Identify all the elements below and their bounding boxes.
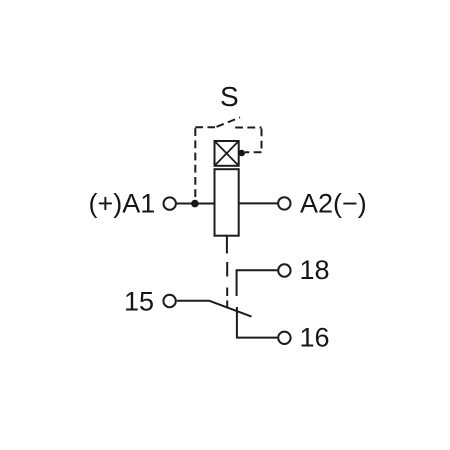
terminal circle 15 [163,295,175,307]
svg-text:15: 15 [124,286,154,316]
svg-text:16: 16 [300,323,330,353]
junction dot at coil right terminal [238,150,245,157]
dashed control wire: left edge from switch S down to A1 node [194,127,196,200]
contact lever (common pole from 15) [209,301,251,317]
wire terminal 15 to lever pivot [177,300,210,302]
terminal circle 18 [278,264,290,276]
switch S top fixed dashed segment (right) [235,127,261,129]
svg-text:A2(−): A2(−) [300,188,367,218]
dashed actuator linkage to contact lever [226,262,228,308]
terminal circle 16 [278,332,290,344]
fixed contact 16: vertical stub [236,307,238,339]
junction node on A1 wire [191,200,199,208]
svg-text:S: S [220,81,239,112]
switch S top fixed dashed segment (left) [195,126,215,128]
svg-text:(+)A1: (+)A1 [89,188,156,218]
switch S lever (dashed, open) [217,117,241,126]
terminal circle A2 [278,197,290,209]
wire fixed contact 16 to terminal 16 [237,337,278,339]
dashed control wire: link to coil terminal dot [245,151,262,153]
svg-text:18: 18 [300,255,330,285]
wire coil to A2 terminal [240,202,278,204]
dashed control wire: right edge from switch S down [261,128,263,152]
relay body (coil) rectangle [215,169,239,236]
armature stub below coil body [226,236,228,254]
fixed contact 18: vertical stub [236,269,238,296]
wire fixed contact 18 to terminal 18 [237,269,278,271]
relay coil indicator box with X [215,141,239,166]
wire A1 terminal to coil [176,203,214,205]
terminal circle A1 [164,197,176,209]
